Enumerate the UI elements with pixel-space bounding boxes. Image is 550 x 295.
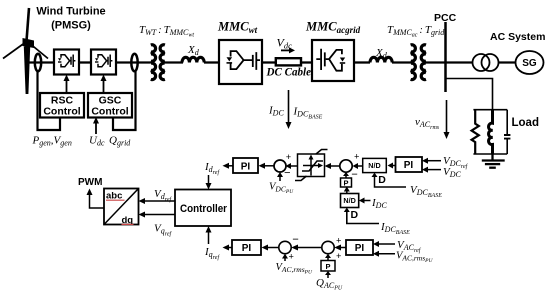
arrow PI2 to ND upper [392,165,395,167]
arrow ND upper to S2 [357,165,363,167]
arrow S3 to PI3 [267,247,278,249]
svg-text:PI: PI [404,160,414,171]
wire turbine to converter [28,61,54,63]
svg-text:Control: Control [43,106,80,118]
svg-text:PI: PI [242,243,252,254]
coupling ellipse E2 [131,54,137,72]
wire S2 to P [345,175,347,178]
svg-text:−: − [284,168,291,180]
wire between converters [79,61,91,63]
summing junction S1 [274,160,286,172]
transformer T_MMCac:T_grid [411,45,426,80]
ground [482,154,505,168]
P box row1 [341,178,352,187]
svg-text:−: − [292,234,299,246]
inductor Xd (ac side) [370,57,392,62]
svg-text:AC System: AC System [490,31,545,43]
arrow limiter to S1 [290,165,297,167]
arrow sum1 to PI1 [264,165,274,167]
svg-text:PI: PI [355,243,365,254]
arrow PI1 output [228,165,233,167]
load top rail [473,109,507,111]
svg-text:−: − [351,169,358,181]
MMC_acgrid box [312,40,354,81]
wire Qgrid loop [113,71,136,130]
arrow controller to abcdq top [144,200,175,202]
wire MMCwt to DC cable [262,61,276,63]
wire inductor to transformer2 [392,61,411,63]
wind turbine [3,8,48,94]
svg-text:D: D [378,174,386,186]
arrow VACref into PI4 [378,243,395,245]
arrow controller to abcdq bottom [144,214,175,216]
svg-text:PI: PI [241,161,251,172]
svg-text:Load: Load [512,117,539,129]
wire transformer to inductor [165,61,183,63]
svg-text:+: + [289,253,294,263]
RSC Control box [40,93,84,118]
load bottom rail [473,153,507,155]
summing junction S4 [322,241,334,253]
arrow Udc into GSC [95,122,97,134]
generator SG [516,51,544,74]
arrow VACrmsPU into PI4 [378,253,395,255]
PI box row3 left [232,240,261,255]
load resistor R [472,110,479,154]
converter box RSC (machine side) [54,50,79,75]
converter box GSC (grid side) [91,50,116,75]
wire inductor to MMCwt [204,61,219,63]
svg-text:N/D: N/D [343,196,355,205]
arrow S2 to limiter [330,165,340,167]
DC cable [276,58,301,65]
Controller box [175,190,231,227]
svg-text:+: + [286,153,291,163]
wire MMCacgrid to inductor [354,61,370,63]
arrow Iqref into controller [208,232,210,245]
svg-text:SG: SG [522,58,537,69]
PCC bus [444,22,447,92]
v_ACrms measurement arrow [446,100,448,133]
wire ND to P [346,191,348,194]
svg-text:D: D [351,209,359,221]
machine coupling ellipse E1 [35,54,41,72]
wire converter to transformer [116,61,151,63]
MMC_wt box [219,40,262,84]
arrow VDCPU into S1 [279,176,281,181]
wire transformer2 to PCC [426,61,473,63]
svg-text:Wind Turbine: Wind Turbine [36,6,105,18]
wire P to S4 [327,257,329,261]
arrow VDC into PI2 [427,169,441,171]
svg-text:DC Cable: DC Cable [266,67,311,79]
summing junction S2 [340,160,352,172]
svg-text:PCC: PCC [434,12,457,24]
wire IDCBASE to ND [347,211,379,224]
svg-text:P: P [343,179,348,188]
load capacitor C [504,110,510,154]
svg-text:+: + [336,252,341,262]
svg-text:Control: Control [91,106,128,118]
svg-text:PWM: PWM [78,177,102,188]
arrow Idref into controller [208,175,210,184]
PI box row3 right [346,240,373,255]
svg-text:+: + [354,153,359,163]
grid transformer circles [473,54,490,71]
abc/dq box [104,189,139,225]
wire VDCBASE to ND upper [375,176,407,187]
PI box row1 right [396,157,423,172]
svg-text:P: P [325,262,330,271]
wire DC cable to MMCacgrid [300,61,312,63]
transformer T_WT:T_MMCwt [151,45,165,80]
arrow GSC to converter2 [103,80,105,93]
wire Pgen Vgen loop [38,71,61,130]
svg-text:N/D: N/D [368,161,380,170]
P box row3 [321,261,335,272]
wire PCC to load [446,79,493,110]
arrow S4 to S3 [297,247,321,249]
arrow QACPU into P [327,274,329,278]
svg-text:(PMSG): (PMSG) [51,20,91,32]
PI box row1 left [233,158,258,173]
arrow IDC into ND [364,200,371,202]
arrow to PWM [90,194,105,208]
summing junction S3 [279,241,291,253]
svg-text:Controller: Controller [180,203,228,215]
I_DC measurement arrow [288,90,290,123]
GSC Control box [88,93,132,118]
arrow PI3 output [228,247,232,249]
wire circles to SG [499,61,517,63]
inductor Xd (wt side) [182,57,204,62]
N/D box upper [363,158,387,172]
load inductor L [489,110,493,154]
arrow VDCref into PI2 [427,160,441,162]
arrow PI4 to S4 [340,247,346,249]
limiter block [295,150,328,181]
arrow VACrmsPU into S3 [284,258,286,261]
arrow RSC to converter1 [66,80,68,93]
N/D box lower [341,194,359,208]
